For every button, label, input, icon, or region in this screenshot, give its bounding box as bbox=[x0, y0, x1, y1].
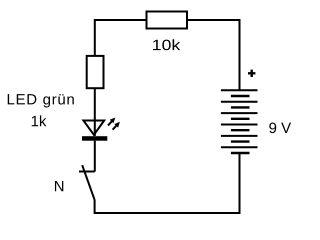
battery BT1 9V bbox=[221, 90, 258, 153]
resistor 1k bbox=[87, 56, 104, 88]
plus sign bbox=[248, 70, 255, 77]
wire top-right segment bbox=[188, 20, 240, 90]
label LED grün bbox=[8, 94, 74, 107]
LED light arrow 1 bbox=[108, 118, 115, 126]
label 10k bbox=[153, 39, 180, 50]
LED D1 bbox=[82, 121, 107, 141]
switch N lever bbox=[82, 165, 94, 199]
LED light arrow 2 bbox=[113, 122, 120, 130]
switch N contact tick bbox=[79, 171, 95, 173]
label N bbox=[55, 181, 63, 191]
resistor 10k bbox=[147, 12, 188, 29]
wire bottom segment bbox=[95, 153, 240, 213]
label 1k bbox=[32, 115, 47, 126]
label 9 V bbox=[269, 123, 291, 134]
wire top-left segment bbox=[95, 20, 146, 55]
wire resistor-to-LED bbox=[94, 88, 96, 136]
wire LED-to-switch bbox=[94, 141, 96, 172]
